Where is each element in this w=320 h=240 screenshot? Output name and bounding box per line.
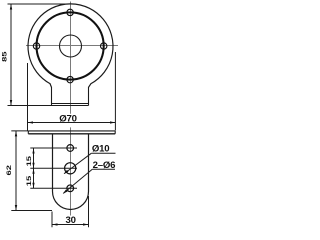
center circle — [60, 35, 82, 57]
svg-text:30: 30 — [66, 215, 76, 226]
dimension 15 (upper) and 15 (lower) — [30, 148, 77, 188]
hole Ø6 upper (front view) — [67, 145, 74, 152]
hole Ø10 middle (front view) — [65, 163, 76, 174]
dimension Ø70 — [28, 52, 116, 131]
flange plate (front view) — [28, 131, 115, 134]
centerline vertical (both views) — [70, 2, 72, 216]
dimension 62 — [11, 131, 52, 211]
centerline horizontal (top view) — [26, 45, 118, 47]
hole Ø6 lower (front view) — [67, 185, 74, 192]
label 2-Ø6 with leader — [63, 160, 115, 194]
bolt circle (bold) — [37, 12, 104, 79]
body (front view) — [53, 134, 89, 210]
bolt hole left — [33, 43, 39, 49]
dimension 85 — [8, 4, 71, 106]
svg-text:85: 85 — [1, 51, 8, 62]
bolt hole bottom — [67, 76, 73, 82]
bolt hole right — [101, 43, 107, 49]
svg-text:15: 15 — [25, 175, 32, 186]
outline circle (top view body) — [28, 4, 113, 87]
svg-text:Ø70: Ø70 — [59, 114, 77, 125]
bolt hole top — [67, 9, 73, 15]
label Ø10 with leader — [64, 144, 116, 175]
base (top view) — [52, 87, 89, 106]
dimension 30 — [52, 196, 89, 227]
svg-text:62: 62 — [5, 165, 12, 176]
svg-text:15: 15 — [25, 155, 32, 166]
